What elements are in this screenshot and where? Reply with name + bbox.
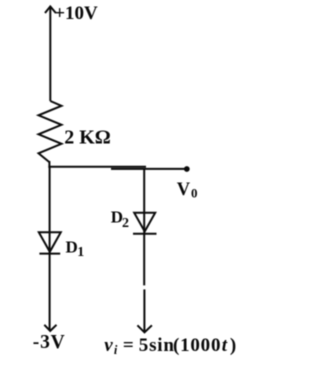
svg-text:2 KΩ: 2 KΩ <box>64 127 111 149</box>
svg-text:1: 1 <box>77 245 84 260</box>
svg-text:D: D <box>66 238 78 257</box>
svg-text:0: 0 <box>191 185 198 200</box>
wire horizontal segment 2 <box>111 168 187 170</box>
node V0 terminal dot <box>184 166 190 172</box>
svg-text:2: 2 <box>122 216 129 231</box>
wire horizontal segment 1 <box>48 166 146 168</box>
node -3V arrowhead <box>44 325 56 331</box>
wire junction down through D1 to -3V arrow <box>49 166 51 330</box>
diode D2 triangle <box>134 213 155 232</box>
diode D1 cathode bar <box>39 253 60 255</box>
svg-text:V: V <box>177 180 191 200</box>
diode D1 triangle <box>39 232 61 252</box>
svg-text:+10V: +10V <box>54 3 98 24</box>
wire from D2 gap to vi arrow <box>143 289 145 331</box>
diode D2 cathode bar <box>133 233 157 235</box>
node vi source arrowhead <box>137 325 152 332</box>
wire from horizontal to D2 <box>143 168 145 285</box>
svg-text:-3V: -3V <box>33 332 66 353</box>
node +10V supply arrow <box>45 6 56 13</box>
svg-text:vi= 5sin(1000t): vi= 5sin(1000t) <box>104 335 237 357</box>
resistor R1 2 KΩ zigzag <box>39 101 62 162</box>
wire from +10V to resistor <box>49 7 51 101</box>
wire resistor bottom to junction <box>48 161 50 168</box>
